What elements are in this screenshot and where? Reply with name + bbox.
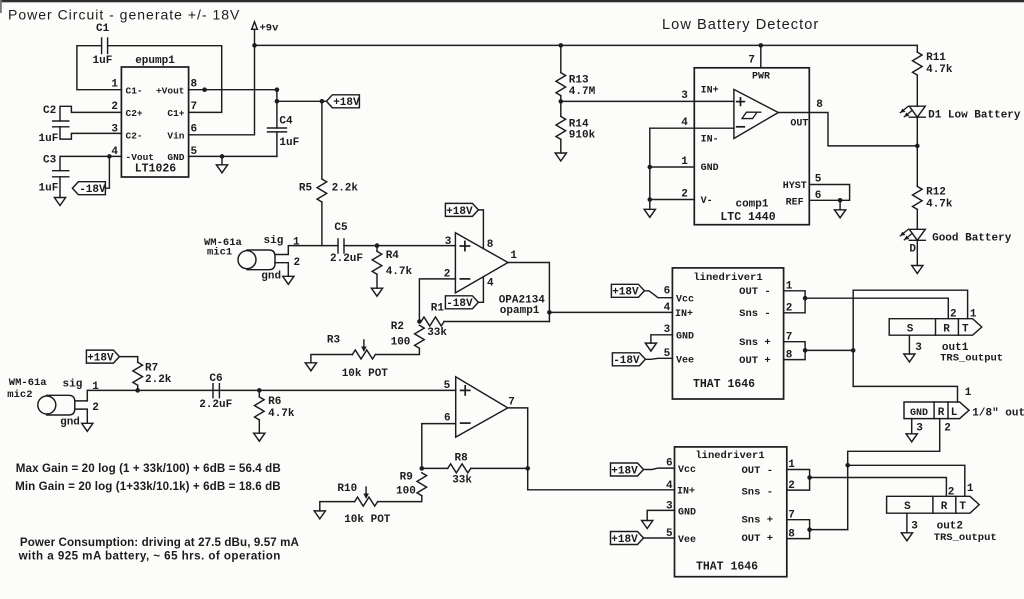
svg-text:GND: GND: [910, 408, 928, 419]
svg-text:GND: GND: [678, 507, 696, 518]
resistor R14: [556, 116, 596, 141]
wire C3 top / pin 4: [60, 156, 121, 170]
svg-text:with a 925 mA battery, ~ 65 hr: with a 925 mA battery, ~ 65 hrs. of oper…: [18, 550, 281, 563]
pin label GND: [167, 152, 184, 163]
label linedriver1 (U4): [693, 272, 762, 284]
wire pin4 down-left chain: [649, 128, 651, 199]
pin number 1 (out1): [970, 308, 977, 320]
node R8/R9/-in: [420, 466, 425, 471]
pin number 1 (1/8 jack): [965, 387, 972, 399]
svg-text:8: 8: [487, 239, 494, 251]
wire U4 OUT-/Sns- strap: [784, 291, 806, 313]
pin number 4: [111, 146, 118, 158]
svg-text:Vee: Vee: [676, 355, 694, 366]
svg-text:8: 8: [816, 99, 823, 111]
svg-text:Vcc: Vcc: [676, 294, 694, 305]
label WM-61a (mic2): [9, 377, 48, 389]
svg-text:6: 6: [664, 286, 671, 298]
wire U4 OUT+ node: [805, 349, 853, 351]
pin label Vin: [167, 130, 184, 141]
pin label IN+ (U5): [677, 487, 695, 498]
svg-text:2.2k: 2.2k: [145, 374, 172, 386]
svg-text:sig: sig: [264, 235, 284, 247]
resistor R8: [448, 453, 473, 487]
pin number 7: [191, 101, 198, 113]
wire C4 top lead: [276, 101, 278, 128]
wire comp1 pin 1 (GND): [650, 166, 695, 168]
svg-text:R9: R9: [400, 471, 413, 483]
svg-text:1: 1: [681, 156, 688, 168]
pin number 3: [111, 123, 118, 135]
capacitor C1: [93, 23, 113, 67]
IC U2 comp1 LTC1440 box: [694, 68, 809, 225]
svg-text:1uF: 1uF: [39, 183, 59, 195]
wire opamp1 out to linedriver1 IN+: [549, 311, 672, 313]
svg-text:-18V: -18V: [613, 355, 640, 367]
svg-text:C5: C5: [334, 222, 348, 234]
pin number 8 (U5): [788, 529, 795, 541]
pin label IN+: [701, 85, 719, 96]
pin number 8 (comp1): [816, 99, 823, 111]
svg-text:D1 Low Battery: D1 Low Battery: [928, 109, 1021, 121]
wire opamp1 output: [508, 263, 549, 322]
svg-text:5: 5: [666, 528, 673, 540]
label D (D2): [909, 244, 916, 256]
svg-text:R10: R10: [337, 483, 357, 495]
svg-text:out2: out2: [937, 521, 963, 533]
svg-text:+18V: +18V: [611, 465, 638, 477]
node R7/sig: [135, 388, 140, 393]
IC U5 linedriver1 THAT1646 box: [675, 447, 787, 577]
wire epump1 pin 8 (+Vout): [189, 89, 277, 91]
potentiometer R3 (10k POT): [327, 334, 388, 380]
ground at comp1 REF: [835, 200, 846, 218]
svg-text:Sns +: Sns +: [741, 515, 773, 527]
svg-text:1: 1: [965, 387, 972, 399]
svg-text:6: 6: [191, 123, 198, 135]
wire 1/8 jack R to out2 net: [848, 419, 940, 530]
wire mic1 sig: [275, 246, 338, 255]
pin label GND (comp1): [701, 163, 719, 174]
note power consumption line 1: [20, 536, 300, 549]
wire R7 to sig: [137, 385, 139, 390]
net tag +18V (power node): [326, 95, 360, 109]
wire opamp1 -in (pin 2): [419, 279, 455, 322]
svg-text:S: S: [907, 323, 914, 335]
svg-text:TRS_output: TRS_output: [940, 353, 1003, 365]
svg-text:mic2: mic2: [7, 389, 32, 401]
pin number 4 (U5): [666, 480, 673, 492]
wire rail to R11: [916, 45, 918, 52]
wire +18V node to R5: [321, 101, 323, 179]
svg-text:linedriver1: linedriver1: [693, 272, 762, 284]
svg-text:TRS_output: TRS_output: [934, 532, 997, 544]
svg-text:GND: GND: [167, 152, 184, 163]
svg-text:2: 2: [92, 402, 99, 414]
svg-text:Vee: Vee: [678, 535, 696, 546]
svg-text:THAT 1646: THAT 1646: [693, 378, 755, 391]
wire rail to R13: [560, 45, 562, 72]
IC U4 linedriver1 THAT1646 box: [672, 268, 783, 399]
net tag -18V (opamp1 pin4): [445, 296, 478, 310]
wire R4 to ground: [376, 274, 378, 288]
svg-text:V-: V-: [701, 196, 713, 207]
svg-text:L: L: [951, 407, 958, 419]
svg-text:C1+: C1+: [167, 108, 184, 119]
wire comp1 OUT (pin 8): [778, 113, 917, 146]
note power consumption line 2: [18, 550, 281, 563]
wire +18V to opamp1 pin 8: [478, 210, 483, 249]
pin label GND (U4): [676, 332, 694, 343]
pin label +Vout: [156, 85, 185, 96]
ground at mic1: [283, 276, 294, 284]
wire U4 OUT- to out1 R: [805, 298, 948, 319]
svg-text:gnd: gnd: [60, 417, 80, 429]
svg-text:3: 3: [681, 90, 688, 102]
svg-text:5: 5: [444, 380, 451, 392]
node opamp1 out: [547, 310, 552, 315]
svg-text:S: S: [904, 501, 911, 513]
ground at out1 sleeve: [904, 354, 915, 362]
wire R8 to output: [471, 467, 528, 469]
svg-text:mic1: mic1: [207, 247, 232, 259]
svg-text:3: 3: [915, 342, 922, 354]
ground below R14: [555, 153, 566, 161]
pin label OUT (comp1): [790, 118, 808, 129]
pin label GND (U5): [678, 507, 696, 518]
wire U5 OUT- to out2 R: [810, 478, 947, 497]
node rail/comp1 PWR: [759, 43, 764, 48]
pin label IN+ (U4): [675, 309, 693, 320]
ground at U5 pin 3: [642, 521, 653, 529]
svg-text:opamp1: opamp1: [500, 305, 540, 317]
pin number 1: [111, 78, 118, 90]
svg-text:linedriver1: linedriver1: [695, 450, 764, 462]
svg-text:1: 1: [967, 483, 974, 495]
wire C1 right to epump1 pin 7: [108, 46, 222, 113]
svg-text:R11: R11: [926, 52, 946, 64]
wire out2 S to ground: [906, 513, 908, 533]
svg-text:-18V: -18V: [79, 184, 106, 196]
pin number 3 (out1): [915, 342, 922, 354]
wire +9v rail: [255, 44, 918, 46]
wire R12 to D2: [916, 209, 918, 229]
svg-text:R13: R13: [569, 75, 589, 87]
wire R11 to D1: [916, 75, 918, 106]
wire C1 left to epump1 pin 1: [77, 46, 122, 90]
label gnd (mic2): [60, 417, 80, 429]
wire opamp2 output: [508, 408, 675, 490]
capacitor C2: [39, 105, 69, 145]
pin number 7 (comp1): [748, 54, 755, 66]
pin label V-: [701, 196, 713, 207]
pin number 6 (comp1): [815, 190, 822, 202]
pin label C2+: [126, 108, 143, 119]
pin label C1+: [167, 108, 184, 119]
wire U4 GND stub: [651, 335, 673, 343]
wire opamp1 pin 4 to -18V: [478, 277, 483, 302]
wire rail to epump1 pin 6 (Vin): [189, 45, 255, 134]
node U4 OUT- net: [803, 296, 808, 301]
wire U5 OUT+ to out2 tip net: [810, 529, 848, 531]
pin label HYST: [783, 181, 807, 192]
svg-text:R12: R12: [926, 187, 946, 199]
microphone mic2 symbol: [38, 395, 75, 415]
pin label C1-: [126, 85, 143, 96]
svg-text:OUT +: OUT +: [741, 533, 773, 545]
svg-text:IN+: IN+: [701, 85, 719, 96]
border top rule: [0, 0, 1024, 13]
node rail at +9v: [252, 43, 257, 48]
resistor R1: [421, 303, 447, 339]
label linedriver1 (U5): [695, 450, 764, 462]
svg-text:4: 4: [681, 117, 688, 129]
svg-text:100: 100: [391, 337, 411, 349]
node REF/ground: [838, 198, 843, 203]
pin number 2 (U4): [786, 302, 793, 314]
svg-text:2.2uF: 2.2uF: [199, 399, 232, 411]
pin number 4 (U4): [664, 302, 671, 314]
pin number 6 (U5): [666, 457, 673, 469]
pin label Vee (U4): [676, 355, 694, 366]
svg-text:Power Circuit - generate +/- 1: Power Circuit - generate +/- 18V: [8, 7, 240, 23]
ground at R10: [314, 511, 325, 519]
wire +18V to R7: [119, 357, 137, 363]
wire mic2 gnd: [75, 409, 88, 423]
svg-text:2: 2: [944, 423, 951, 435]
svg-text:R5: R5: [299, 183, 313, 195]
svg-text:D: D: [909, 244, 916, 256]
svg-text:T: T: [962, 323, 969, 335]
pin number 2 (opamp1): [444, 269, 451, 281]
supply symbol +9v: [252, 22, 279, 46]
svg-text:1: 1: [510, 250, 517, 262]
svg-text:33k: 33k: [427, 327, 447, 339]
node U5 OUT+ net: [807, 527, 812, 532]
node U4 OUT+ net: [803, 348, 808, 353]
wire C4 bottom lead: [276, 132, 278, 157]
svg-text:3: 3: [916, 423, 923, 435]
node R1/R2/-in: [417, 319, 422, 324]
label sig (mic2): [63, 379, 83, 391]
pin label OUT - (U5): [741, 465, 773, 477]
wire mic1 gnd: [275, 263, 288, 277]
resistor R2: [391, 321, 425, 349]
comparator triangle U2: [734, 89, 778, 138]
wire OUT+ vertical: [852, 290, 854, 386]
ground below R6: [254, 433, 265, 441]
svg-text:+18V: +18V: [446, 206, 473, 218]
svg-text:2.2k: 2.2k: [332, 183, 359, 195]
svg-text:10k POT: 10k POT: [344, 514, 391, 526]
resistor R4: [372, 250, 412, 278]
svg-text:7: 7: [508, 396, 515, 408]
ground at 1/8 jack: [906, 434, 917, 442]
wire rail to comp1 pin 7 (PWR): [760, 45, 762, 67]
wire HYST-REF strap: [809, 185, 849, 201]
pin number 4 (opamp1): [487, 277, 494, 289]
wire +18V to U5 pin 6: [644, 468, 675, 469]
svg-text:sig: sig: [63, 379, 83, 391]
node +18V / R5 junction: [320, 99, 325, 104]
svg-text:C4: C4: [279, 116, 293, 128]
label gnd (mic1): [261, 271, 281, 283]
connector out2 TRS_output: [887, 496, 980, 513]
svg-text:1: 1: [293, 236, 300, 248]
svg-text:T: T: [959, 501, 966, 513]
svg-text:IN+: IN+: [675, 309, 693, 320]
svg-text:910k: 910k: [569, 130, 596, 142]
wire out2 tip branch: [848, 465, 965, 496]
pin number 2 (mic1): [294, 257, 301, 269]
node U5 OUT- net: [807, 475, 812, 480]
svg-text:C1: C1: [96, 23, 110, 35]
pin number 2 (U5): [788, 480, 795, 492]
svg-text:1: 1: [111, 78, 118, 90]
wire +18V to U4 pin 6: [644, 291, 672, 298]
microphone mic1 symbol: [238, 250, 275, 270]
pin number 6 (opamp2): [444, 413, 451, 425]
wire R5 to mic1 sig node: [321, 202, 323, 246]
resistor R13: [556, 73, 596, 98]
wire C5 to opamp1 +in: [344, 245, 455, 247]
pin number 6 (U4): [664, 286, 671, 298]
wire mic2 sig: [75, 390, 456, 401]
wire U5 OUT-/Sns- strap: [787, 470, 810, 491]
label out1: [942, 342, 969, 354]
pin number 8: [191, 78, 198, 90]
net tag +18V (R7): [86, 350, 119, 364]
svg-text:R2: R2: [391, 321, 404, 333]
wire U5 Sns+/OUT+ strap: [787, 520, 810, 539]
wire R2 to R3: [376, 348, 420, 354]
svg-text:THAT 1646: THAT 1646: [696, 561, 758, 574]
svg-text:+18V: +18V: [333, 97, 360, 109]
svg-text:R8: R8: [455, 453, 469, 465]
svg-text:R4: R4: [386, 250, 400, 262]
wire C2 top to pin 2: [60, 106, 121, 121]
pin number 5 (U4): [664, 348, 671, 360]
ground below R4: [371, 288, 382, 296]
svg-text:OUT -: OUT -: [741, 465, 773, 477]
svg-text:Low Battery Detector: Low Battery Detector: [662, 17, 819, 33]
node pin4/-18V junction: [107, 154, 112, 159]
svg-text:4.7k: 4.7k: [268, 408, 295, 420]
pin label Vee (U5): [678, 535, 696, 546]
net tag +18V (U5 Vee): [611, 532, 644, 546]
pin number 1 (mic2): [92, 381, 99, 393]
ground at out2 sleeve: [901, 533, 912, 541]
IC U1 epump1 LT1026 box: [121, 67, 188, 177]
svg-text:LTC 1440: LTC 1440: [720, 211, 775, 224]
wire R14 to ground: [560, 139, 562, 153]
wire -18V to U4 pin 5: [645, 358, 672, 359]
pin number 7 (U4): [786, 331, 793, 343]
svg-text:Sns -: Sns -: [739, 308, 771, 320]
wire divider to comp1 IN+ (pin 3): [561, 100, 695, 102]
svg-text:2: 2: [681, 188, 688, 200]
LED D2: [900, 229, 925, 240]
wire U4 Sns+/OUT+ strap: [784, 342, 806, 360]
wire OUT+ to out1 T: [853, 290, 967, 319]
svg-text:-Vout: -Vout: [126, 152, 155, 163]
svg-text:4.7k: 4.7k: [386, 266, 413, 278]
resistor R5: [299, 179, 359, 202]
label D1 Low Battery: [928, 109, 1021, 121]
pin number 3 (comp1): [681, 90, 688, 102]
svg-text:3: 3: [911, 520, 918, 532]
pin label Sns + (U4): [739, 337, 771, 349]
pin label C2-: [126, 130, 143, 141]
connector 1/8in jack: [904, 402, 969, 419]
wire U5 GND stub: [647, 510, 674, 520]
label Good Battery: [932, 233, 1012, 245]
svg-text:100: 100: [396, 486, 416, 498]
label LT1026: [135, 163, 177, 176]
svg-text:1uF: 1uF: [279, 137, 299, 149]
wire comp1 pin3 internal: [694, 100, 734, 102]
pin label Sns - (U5): [741, 487, 773, 499]
svg-text:Power Consumption: driving at: Power Consumption: driving at 27.5 dBu, …: [20, 536, 300, 549]
pin number 2 (mic2): [92, 402, 99, 414]
svg-text:WM-61a: WM-61a: [9, 377, 48, 389]
label opamp1: [500, 305, 540, 317]
svg-text:8: 8: [191, 78, 198, 90]
label TRS_output (out2): [934, 532, 997, 544]
svg-text:C2-: C2-: [126, 130, 143, 141]
capacitor C5: [330, 222, 363, 265]
svg-text:Vcc: Vcc: [678, 465, 696, 476]
label OPA2134: [499, 294, 546, 306]
wire OUT+ to 1/8 jack L: [853, 386, 957, 402]
svg-text:R: R: [941, 501, 948, 513]
svg-text:Sns -: Sns -: [741, 487, 773, 499]
pin label OUT - (U4): [739, 286, 771, 298]
svg-text:7: 7: [191, 101, 198, 113]
svg-text:4.7M: 4.7M: [569, 86, 596, 98]
pin number 7 (U5): [788, 509, 795, 521]
wire epump1 pin 5 (GND): [189, 155, 277, 157]
pin number 1 (out2): [967, 483, 974, 495]
pin label REF: [786, 197, 804, 208]
net tag +18V (U4 Vcc): [611, 284, 644, 298]
wire R4 top lead: [376, 246, 378, 252]
svg-text:IN-: IN-: [701, 135, 719, 146]
svg-text:4: 4: [487, 277, 494, 289]
node +Vout corner: [275, 87, 280, 92]
svg-text:R3: R3: [327, 334, 341, 346]
net tag -18V: [72, 182, 106, 196]
node C6/R6: [257, 388, 262, 393]
svg-text:3: 3: [445, 236, 452, 248]
svg-text:Good Battery: Good Battery: [932, 233, 1012, 245]
svg-text:gnd: gnd: [261, 271, 281, 283]
wire D2 to ground: [916, 240, 918, 265]
label comp1: [735, 199, 768, 211]
pin number 3 (U5): [666, 500, 673, 512]
wire +Vout down to +18V node: [277, 90, 327, 102]
pin number 3 (U4): [664, 324, 671, 336]
label 1/8" out: [972, 408, 1024, 420]
label out2: [937, 521, 963, 533]
connector out1 TRS_output: [889, 319, 982, 336]
svg-text:4.7k: 4.7k: [926, 199, 953, 211]
svg-text:R6: R6: [268, 396, 281, 408]
pin number 1 (opamp1): [510, 250, 517, 262]
node comp1 V- junction: [648, 197, 653, 202]
pin label Sns - (U4): [739, 308, 771, 320]
resistor R9: [396, 471, 427, 497]
